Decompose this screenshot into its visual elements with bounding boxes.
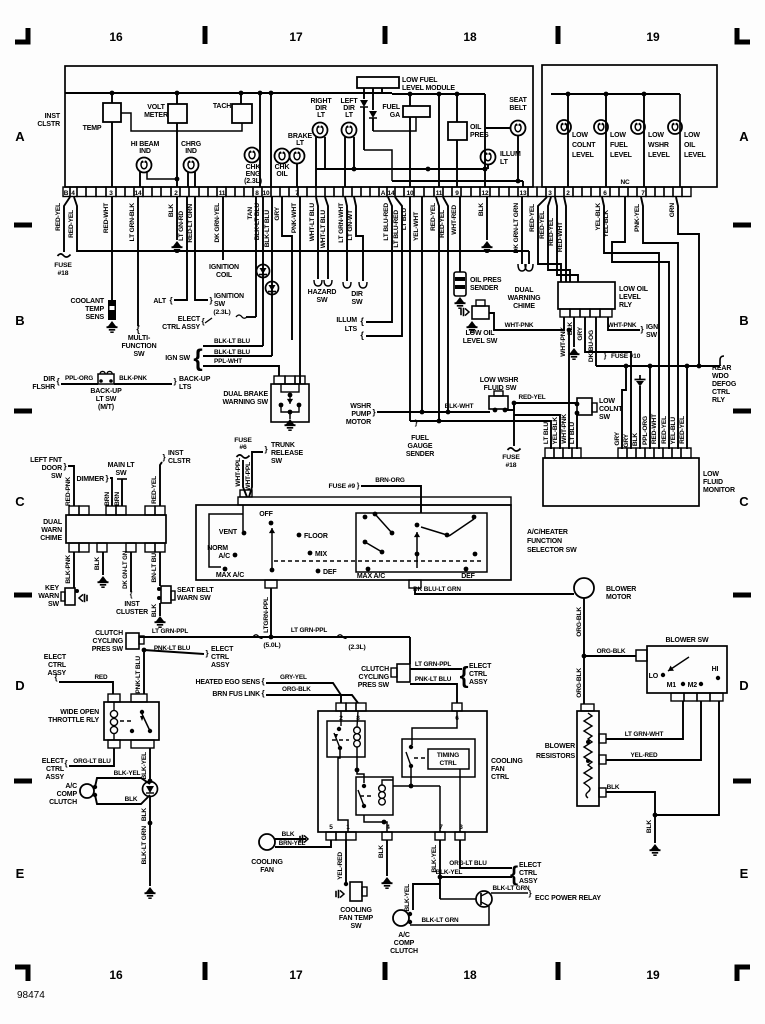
lamp ILLUM LT: [481, 150, 496, 165]
wire BLK-YEL pin 7: [439, 840, 441, 899]
svg-text:COMP: COMP: [57, 791, 78, 798]
wire LT BLU-RED illum 1: [366, 197, 392, 322]
svg-text:B: B: [64, 190, 69, 197]
svg-text:YEL-WHT: YEL-WHT: [413, 212, 420, 241]
svg-text:A: A: [15, 129, 25, 144]
wire CHRG IND terminals: [187, 172, 189, 187]
svg-text:LT GN-WT: LT GN-WT: [347, 210, 354, 241]
wire LT GN-WT dir sw 2: [354, 197, 363, 281]
svg-text:LT: LT: [296, 140, 305, 147]
wire RED-YEL bus: [74, 197, 529, 251]
svg-text:#6: #6: [239, 444, 247, 451]
wire GRY monitor 1: [622, 366, 626, 449]
wire selector to clutch sw: [409, 637, 411, 664]
wire HI to ground bus: [655, 701, 719, 815]
ground feed BLK monitor: [635, 375, 646, 387]
wire K2 mesh: [393, 785, 440, 787]
svg-text:SEAT BELT: SEAT BELT: [177, 587, 214, 594]
lamp LOW WSHR LEVEL: [631, 120, 645, 134]
relay K1: [327, 721, 365, 757]
module LOW FLUID MONITOR: [545, 448, 554, 458]
wire BLK-LT BLU ign sw 1: [262, 197, 264, 346]
svg-text:ORG-BLK: ORG-BLK: [597, 648, 626, 655]
switch BLOWER SW: [636, 650, 647, 661]
wire LT GRN-PPL main: [139, 636, 410, 638]
svg-text:LT BLU: LT BLU: [569, 422, 576, 444]
wire coil K1 down: [356, 747, 358, 770]
svg-text:CLUTCH: CLUTCH: [361, 666, 389, 673]
svg-text:NORM: NORM: [207, 545, 228, 552]
wire LT BLU monitor: [410, 421, 551, 449]
svg-text:BLK-YEL: BLK-YEL: [436, 869, 463, 876]
svg-text:{: {: [170, 296, 173, 305]
svg-text:OIL: OIL: [684, 142, 696, 149]
svg-text:YEL-BLK: YEL-BLK: [552, 417, 559, 445]
ground blower: [650, 844, 661, 855]
svg-text:A: A: [739, 129, 749, 144]
svg-text:OIL: OIL: [276, 171, 288, 178]
svg-text:19: 19: [646, 968, 660, 982]
svg-text:SW: SW: [599, 414, 611, 421]
selector DEF contact: [316, 569, 321, 574]
svg-text:PPL-ORG: PPL-ORG: [65, 375, 93, 382]
svg-text:10: 10: [263, 190, 270, 197]
switch HAZARD SW: [314, 280, 332, 286]
svg-text:WARN: WARN: [41, 527, 62, 534]
wire GRN: [676, 197, 699, 366]
svg-text:GRY: GRY: [274, 206, 281, 220]
svg-text:PNK-LT BLU: PNK-LT BLU: [154, 645, 191, 652]
svg-text:14: 14: [388, 190, 395, 197]
svg-text:CTRL: CTRL: [48, 662, 67, 669]
wire RED-YEL rly 1: [538, 197, 561, 282]
selector inner box: [356, 513, 487, 572]
svg-text:BLK-LT BLU: BLK-LT BLU: [214, 349, 251, 356]
svg-text:FUEL: FUEL: [610, 142, 629, 149]
svg-text:LT GN-RD: LT GN-RD: [178, 211, 185, 241]
module COOLING FAN CTRL: [336, 703, 346, 711]
wire BRN dimmer: [110, 478, 112, 506]
svg-text:LEVEL MODULE: LEVEL MODULE: [402, 85, 455, 92]
svg-text:SW: SW: [214, 301, 226, 308]
wire emitter to clutch: [410, 906, 489, 925]
svg-text:TRUNK: TRUNK: [271, 442, 295, 449]
lamp CHK OIL: [275, 149, 290, 164]
wire timing to pin 3: [459, 769, 461, 832]
svg-text:THROTTLE RLY: THROTTLE RLY: [48, 717, 99, 724]
svg-text:ALT: ALT: [153, 298, 167, 305]
module TIMING CTRL: [402, 739, 475, 777]
svg-text:FAN: FAN: [491, 766, 505, 773]
wire timing to K2: [410, 768, 412, 786]
svg-text:PNK-YEL: PNK-YEL: [634, 204, 641, 232]
wire BLK-WHT: [377, 411, 490, 413]
svg-text:DUAL: DUAL: [43, 519, 63, 526]
svg-text:ASSY: ASSY: [469, 679, 488, 686]
wire DK BU-OG fuse10: [595, 317, 597, 366]
svg-text:OIL PRES: OIL PRES: [470, 277, 502, 284]
svg-text:INST: INST: [45, 113, 61, 120]
svg-text:PRES: PRES: [470, 132, 489, 139]
svg-text:RED-WHT: RED-WHT: [557, 222, 564, 252]
svg-text:WSHR: WSHR: [648, 142, 669, 149]
svg-text:LOW: LOW: [648, 132, 664, 139]
svg-text:BACK-UP: BACK-UP: [90, 388, 122, 395]
wire seat belt feed: [484, 94, 486, 187]
svg-text:RED-YEL: RED-YEL: [439, 210, 446, 238]
svg-text:13: 13: [520, 190, 527, 197]
svg-text:ASSY: ASSY: [46, 774, 65, 781]
svg-text:YEL-RED: YEL-RED: [337, 852, 344, 880]
wire DK GN-LT GN inst cluster: [130, 552, 132, 592]
svg-text:WARN SW: WARN SW: [177, 595, 211, 602]
svg-text:BLK-LT GRN: BLK-LT GRN: [421, 917, 459, 924]
svg-text:BRN: BRN: [104, 492, 111, 506]
svg-text:COOLANT: COOLANT: [70, 298, 104, 305]
svg-text:CLUTCH: CLUTCH: [95, 630, 123, 637]
svg-text:BLK-YEL: BLK-YEL: [404, 884, 411, 912]
wire GRY rly to monitor: [585, 317, 631, 449]
svg-text:IGN SW: IGN SW: [165, 355, 190, 362]
motor BLOWER MOTOR: [574, 578, 594, 598]
svg-text:CTRL: CTRL: [712, 389, 731, 396]
svg-text:LT BLU-RED: LT BLU-RED: [393, 210, 400, 248]
selector inner contacts 2: [415, 523, 420, 528]
svg-text:KEY: KEY: [45, 585, 59, 592]
svg-text:LT BLU: LT BLU: [543, 422, 550, 444]
selector arrow 2: [416, 532, 418, 568]
wire RED-YEL fuse 18: [64, 197, 70, 252]
svg-text:CHK: CHK: [275, 164, 290, 171]
svg-text:{: {: [57, 377, 60, 386]
svg-text:WHT-PNK: WHT-PNK: [560, 327, 567, 357]
wire YEL-WHT: [421, 197, 423, 412]
diode clutch CR5: [143, 782, 158, 797]
wire WHT-PNK low oil sw to rly: [489, 313, 564, 330]
svg-text:LOW: LOW: [684, 132, 700, 139]
cluster lower bus: [392, 180, 523, 182]
module supply bus: [392, 93, 485, 95]
selector FLOOR contact: [297, 533, 302, 538]
wire BLK cooling fan: [275, 838, 306, 840]
svg-text:MAX A/C: MAX A/C: [216, 572, 244, 579]
wire BLK-YEL to elect: [440, 876, 512, 878]
svg-text:RELEASE: RELEASE: [271, 450, 303, 457]
connector strip: [63, 187, 70, 197]
svg-text:BLK-LT BLU: BLK-LT BLU: [254, 203, 261, 241]
svg-text:ILLUM: ILLUM: [336, 317, 357, 324]
svg-text:DK BLU-LT GRN: DK BLU-LT GRN: [413, 586, 461, 593]
wire TEMP to TACH: [121, 113, 242, 131]
(5.0L) splice: [253, 635, 263, 639]
svg-text:BACK-UP: BACK-UP: [179, 376, 211, 383]
svg-text:{: {: [510, 863, 518, 886]
svg-text:B: B: [15, 313, 24, 328]
wire PNK-WHT into sw: [299, 376, 301, 384]
svg-text:RED-YEL: RED-YEL: [68, 210, 75, 238]
wire low fuel lamp: [605, 94, 607, 187]
svg-text:LOW: LOW: [610, 132, 626, 139]
svg-text:RLY: RLY: [619, 302, 632, 309]
svg-text:LEVEL: LEVEL: [684, 152, 707, 159]
svg-text:MIX: MIX: [315, 551, 327, 558]
lamp LOW COLNT LEVEL: [557, 120, 571, 134]
svg-text:17: 17: [289, 968, 303, 982]
svg-text:ELECT: ELECT: [469, 663, 492, 670]
svg-text:}: }: [206, 649, 209, 658]
wire to pin 13: [522, 181, 524, 187]
svg-text:(5.0L): (5.0L): [263, 642, 280, 649]
svg-text:BLK: BLK: [151, 604, 158, 617]
wire PNK-WHT dual brake sw: [299, 197, 301, 376]
svg-text:}: }: [373, 408, 376, 417]
svg-text:COLNT: COLNT: [599, 406, 623, 413]
fuse F18: [58, 254, 71, 257]
svg-text:A/C: A/C: [65, 783, 77, 790]
wire ORG-BLK blower 1: [583, 598, 585, 656]
svg-text:A/C/HEATER: A/C/HEATER: [527, 529, 568, 536]
svg-text:BLK: BLK: [567, 322, 574, 335]
svg-text:18: 18: [463, 30, 477, 44]
wire RED-YEL low wshr 2: [443, 197, 448, 412]
svg-text:YEL-BLU: YEL-BLU: [670, 417, 677, 445]
svg-text:WSHR: WSHR: [350, 403, 371, 410]
svg-text:E: E: [740, 866, 749, 881]
svg-text:RED: RED: [94, 674, 108, 681]
svg-text:BRN FUS LINK: BRN FUS LINK: [212, 691, 260, 698]
svg-text:SELECTOR SW: SELECTOR SW: [527, 547, 577, 554]
svg-text:BLK: BLK: [607, 784, 620, 791]
svg-text:}: }: [174, 377, 177, 386]
svg-text:2: 2: [566, 190, 570, 197]
svg-text:RED-WHT: RED-WHT: [103, 203, 110, 233]
svg-text:YEL-BLK: YEL-BLK: [603, 210, 610, 238]
svg-text:WHT-PPL: WHT-PPL: [245, 462, 252, 491]
svg-text:ASSY: ASSY: [519, 878, 538, 885]
clutch A/C COMP CLUTCH (bottom): [393, 910, 409, 926]
svg-text:BLK-PNK: BLK-PNK: [65, 555, 72, 584]
svg-text:CLUSTER: CLUSTER: [116, 609, 148, 616]
svg-text:OIL: OIL: [470, 124, 482, 131]
svg-text:16: 16: [109, 968, 123, 982]
svg-text:LEVEL SW: LEVEL SW: [463, 338, 498, 345]
wire RED-LT GRN ignition sw: [195, 197, 208, 300]
svg-text:SW: SW: [116, 470, 128, 477]
wire BRN-ORG: [361, 486, 421, 513]
svg-text:}: }: [163, 453, 166, 462]
svg-text:C: C: [15, 494, 25, 509]
svg-text:TIMING: TIMING: [437, 752, 459, 759]
svg-text:SEAT: SEAT: [509, 97, 527, 104]
svg-text:A: A: [381, 190, 386, 197]
svg-text:CHIME: CHIME: [40, 535, 62, 542]
wire relay K1 to pin 1: [338, 750, 348, 832]
svg-text:ILLUM: ILLUM: [500, 151, 521, 158]
switch SEAT BELT WARN SW: [157, 587, 161, 591]
svg-text:RED-YEL: RED-YEL: [55, 203, 62, 231]
svg-text:COOLING: COOLING: [491, 758, 523, 765]
svg-text:6: 6: [603, 190, 607, 197]
diode CR2: [372, 88, 374, 110]
svg-text:BRN-ORG: BRN-ORG: [375, 477, 405, 484]
svg-text:SW: SW: [352, 299, 364, 306]
wire BLK-LT BLU tap1: [203, 345, 263, 347]
wire BRN-YEL: [275, 840, 331, 847]
wire PPL-WHT to dual brake sw: [203, 366, 279, 376]
svg-text:CLUTCH: CLUTCH: [390, 948, 418, 955]
svg-text:LOW: LOW: [599, 398, 615, 405]
svg-text:}: }: [265, 445, 268, 454]
svg-text:LT: LT: [317, 112, 326, 119]
svg-text:BLK-WHT: BLK-WHT: [445, 403, 474, 410]
svg-text:RED-LT GRN: RED-LT GRN: [187, 204, 194, 243]
svg-text:BRN-YEL: BRN-YEL: [279, 840, 306, 847]
svg-text:ORG-BLK: ORG-BLK: [576, 668, 583, 698]
svg-text:RED-YEL: RED-YEL: [661, 416, 668, 444]
svg-text:DIR: DIR: [343, 105, 355, 112]
svg-text:DK GRN-YEL: DK GRN-YEL: [214, 203, 221, 243]
wire GRY: [282, 197, 292, 340]
svg-text:IGNITION: IGNITION: [214, 293, 244, 300]
svg-text:BLK: BLK: [282, 831, 295, 838]
svg-text:GAUGE: GAUGE: [408, 443, 433, 450]
svg-text:FAN: FAN: [260, 867, 274, 874]
svg-text:FUEL: FUEL: [382, 104, 401, 111]
svg-text:DIR: DIR: [351, 291, 363, 298]
svg-text:PNK-LT BLU: PNK-LT BLU: [135, 656, 142, 694]
svg-text:RED-YEL: RED-YEL: [539, 211, 546, 239]
svg-text:INST: INST: [124, 601, 140, 608]
wire BLK ground: [176, 197, 178, 240]
wire LT GRN-WHT: [606, 701, 683, 739]
svg-text:}: }: [106, 474, 109, 483]
wire chk-eng feed: [259, 93, 261, 187]
switch DIR SW: [343, 282, 367, 288]
svg-text:PPL-ORG: PPL-ORG: [642, 416, 649, 445]
svg-text:(2.3L): (2.3L): [244, 178, 262, 185]
svg-text:ORG-LT BLU: ORG-LT BLU: [449, 860, 487, 867]
svg-text:LOW OIL: LOW OIL: [619, 286, 649, 293]
svg-text:IND: IND: [185, 148, 197, 155]
svg-text:18: 18: [463, 968, 477, 982]
wire BLK-LT BLU ign sw 2: [271, 197, 273, 356]
svg-text:FLOOR: FLOOR: [304, 533, 328, 540]
svg-text:SENDER: SENDER: [406, 451, 434, 458]
wire WHT-LT BLU hazard 1: [316, 197, 318, 279]
svg-text:RED-YEL: RED-YEL: [529, 204, 536, 232]
svg-text:BRN: BRN: [114, 492, 121, 506]
svg-text:MOTOR: MOTOR: [606, 594, 631, 601]
wire PPL-ORG monitor: [649, 366, 651, 449]
svg-text:YEL-RED: YEL-RED: [631, 752, 659, 759]
svg-text:11: 11: [436, 190, 443, 197]
svg-text:IND: IND: [139, 148, 151, 155]
svg-text:#18: #18: [58, 270, 69, 277]
svg-text:LT GRN-PPL: LT GRN-PPL: [291, 627, 328, 634]
svg-text:17: 17: [289, 30, 303, 44]
svg-text:LT: LT: [500, 159, 509, 166]
svg-text:WARN: WARN: [38, 593, 59, 600]
motor COOLING FAN: [259, 834, 275, 850]
svg-text:LT GRN-BLK: LT GRN-BLK: [129, 203, 136, 242]
svg-text:B: B: [739, 313, 748, 328]
svg-text:RED-YEL: RED-YEL: [519, 394, 546, 401]
svg-text:4: 4: [71, 190, 75, 197]
svg-text:GRY: GRY: [614, 431, 621, 445]
wire BLK ground pin12: [486, 197, 488, 240]
svg-text:WHT-RED: WHT-RED: [451, 205, 458, 235]
wire RED-YEL fuse18b: [513, 403, 515, 446]
svg-text:BLK: BLK: [478, 203, 485, 216]
svg-text:FUEL: FUEL: [411, 435, 430, 442]
gauge VOLT METER: [176, 93, 178, 104]
wire fuel ga drop: [409, 94, 411, 106]
svg-text:BRAKE: BRAKE: [288, 133, 313, 140]
svg-text:BLK-LT GRN: BLK-LT GRN: [141, 826, 148, 865]
svg-text:FUSE #10: FUSE #10: [611, 353, 641, 360]
svg-text:3: 3: [548, 190, 552, 197]
wire BLK clutch bottom: [95, 795, 150, 804]
svg-text:}: }: [604, 353, 607, 360]
svg-text:ECC POWER RELAY: ECC POWER RELAY: [535, 895, 601, 902]
svg-text:CTRL: CTRL: [491, 774, 510, 781]
wire RED-YEL rly 2: [548, 197, 570, 282]
svg-text:DIR: DIR: [315, 105, 327, 112]
svg-text:DK GN-LT GN: DK GN-LT GN: [122, 551, 129, 589]
svg-text:FUSE: FUSE: [54, 262, 72, 269]
svg-text:LEVEL: LEVEL: [572, 152, 595, 159]
wire LEFT DIR LT to connector: [344, 137, 346, 187]
wire fuel ga mesh: [364, 150, 392, 181]
svg-text:2: 2: [174, 190, 178, 197]
gauge TACH: [240, 93, 242, 104]
svg-text:WARNING: WARNING: [508, 295, 541, 302]
svg-text:DEF: DEF: [461, 573, 475, 580]
svg-text:16: 16: [109, 30, 123, 44]
svg-text:INST: INST: [168, 450, 184, 457]
cluster supply bus: [65, 92, 392, 94]
svg-text:LTGRN-PPL: LTGRN-PPL: [263, 597, 270, 633]
wire BLK-PNK key warn: [73, 552, 75, 588]
svg-text:MAX A/C: MAX A/C: [357, 573, 385, 580]
svg-text:{: {: [262, 689, 265, 698]
svg-text:LOW: LOW: [703, 471, 719, 478]
wire LT GRN-WHT dir sw 1: [345, 197, 347, 281]
svg-text:TACH: TACH: [213, 103, 231, 110]
wire LT BLU colnt to monitor: [576, 413, 578, 449]
svg-text:C: C: [739, 494, 749, 509]
svg-text:CYCLING: CYCLING: [359, 674, 390, 681]
svg-text:PRES SW: PRES SW: [358, 682, 390, 689]
svg-text:11: 11: [219, 190, 226, 197]
svg-text:}: }: [210, 296, 213, 305]
svg-text:CTRL ASSY: CTRL ASSY: [162, 324, 200, 331]
wire BLK chime ground: [102, 552, 104, 575]
svg-text:{: {: [193, 345, 202, 372]
svg-text:HI: HI: [712, 666, 719, 673]
wire HI BEAM IND to connector: [139, 172, 141, 187]
svg-text:ORG-BLK: ORG-BLK: [576, 607, 583, 637]
svg-text:HEATED EGO SENS: HEATED EGO SENS: [195, 679, 260, 686]
svg-text:SW: SW: [317, 297, 329, 304]
svg-text:HAZARD: HAZARD: [308, 289, 337, 296]
svg-text:RED-PNK: RED-PNK: [65, 477, 72, 506]
wire K2 to pin 4: [364, 815, 387, 832]
svg-text:FUSE: FUSE: [502, 454, 520, 461]
svg-text:{: {: [202, 317, 205, 326]
wire rear defog feed: [596, 365, 720, 367]
wire low colnt lamp: [567, 94, 569, 187]
